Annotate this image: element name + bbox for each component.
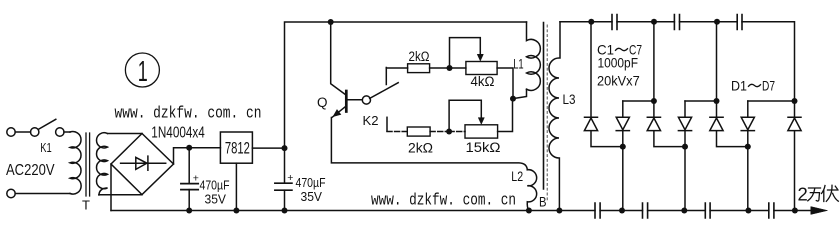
inductor L1 — [527, 22, 541, 90]
wire secondary top to bridge — [108, 133, 143, 135]
wire 12V vertical riser — [285, 22, 331, 183]
wire down to capacitor 470uF — [188, 148, 190, 184]
diode D2 — [616, 101, 629, 211]
svg-text:15kΩ: 15kΩ — [466, 140, 501, 155]
capacitor C top3 — [737, 15, 742, 30]
wire AC bottom to transformer primary — [15, 193, 70, 195]
capacitor 470uF/35V (first) — [181, 184, 198, 190]
wire cap to ground rail — [188, 190, 190, 211]
svg-text:L2: L2 — [511, 169, 523, 184]
svg-text:D7: D7 — [762, 78, 775, 94]
svg-text:Q: Q — [317, 95, 328, 110]
transformer B core dashed — [546, 25, 548, 200]
svg-text:AC220V: AC220V — [6, 162, 55, 179]
transistor Q base lead — [346, 99, 362, 101]
capacitor 470uF/35V (second) — [275, 183, 292, 190]
arrow wiper 4k — [477, 55, 483, 62]
svg-text:470µF: 470µF — [200, 178, 230, 193]
junction dot 12V node — [282, 145, 288, 151]
wire 7812 output — [252, 147, 284, 149]
svg-text:35V: 35V — [301, 189, 323, 204]
resistor 2k lower box — [407, 127, 430, 136]
wire bridge DC+ up to rail — [174, 148, 221, 164]
svg-text:2kΩ: 2kΩ — [408, 141, 433, 156]
bridge rectifier 1N4004x4 diamond — [111, 134, 174, 195]
junction dot lower branch — [446, 129, 452, 135]
wire 15k right up to join node — [498, 99, 513, 132]
dashed wire lower contact to 2k — [387, 131, 407, 133]
svg-text:T: T — [82, 198, 90, 213]
svg-text:L3: L3 — [563, 92, 576, 107]
svg-text:K1: K1 — [40, 141, 52, 155]
potentiometer 15k box — [465, 125, 498, 138]
svg-text:1: 1 — [138, 56, 148, 88]
junction dot D5 top — [714, 98, 720, 104]
capacitor C bottom2 — [643, 203, 648, 218]
svg-text:B: B — [539, 194, 547, 210]
svg-text:+: + — [287, 172, 293, 184]
wire 4k right to join node — [497, 68, 513, 99]
output wire 20kV — [795, 210, 812, 212]
junction dot D6 bottom — [745, 144, 751, 150]
svg-text:7812: 7812 — [225, 139, 250, 158]
diode D1 — [584, 22, 622, 147]
ground rail bottom — [111, 210, 795, 212]
wire 2k to node — [430, 67, 466, 69]
svg-text:www. dzkfw. com. cn: www. dzkfw. com. cn — [115, 104, 262, 123]
svg-text:1N4004x4: 1N4004x4 — [151, 124, 205, 141]
circled number 1 — [125, 53, 159, 87]
output arrowhead — [811, 207, 828, 215]
junction dot collector rail — [328, 19, 334, 25]
capacitor C bottom1 — [595, 203, 600, 218]
diode D7 — [788, 101, 801, 211]
node AC input terminal bottom — [7, 189, 15, 197]
switch K2 upper contact — [385, 68, 387, 85]
junction dots bottom rail — [619, 208, 798, 214]
inductor L2 — [527, 170, 536, 211]
svg-text:K2: K2 — [363, 113, 379, 128]
inductor L3 secondary HV winding — [549, 22, 560, 211]
switch K1 left contact — [31, 128, 39, 136]
capacitor C top1 — [612, 15, 617, 30]
svg-text:35V: 35V — [205, 192, 227, 207]
svg-text:D1: D1 — [731, 78, 747, 94]
wire D2-D3 top link — [623, 100, 654, 102]
wire secondary bottom to bridge — [99, 194, 142, 196]
junction dot D4 bottom — [682, 144, 688, 150]
wire switch to transformer primary — [64, 131, 70, 133]
svg-text:1000pF: 1000pF — [598, 56, 639, 71]
junction dot D2 bottom — [620, 144, 626, 150]
svg-text:4kΩ: 4kΩ — [471, 74, 495, 89]
wire node to 15k — [449, 131, 465, 133]
svg-text:www. dzkfw. com. cn: www. dzkfw. com. cn — [371, 190, 516, 209]
junction dot cap2 ground — [282, 208, 288, 214]
svg-text:2kΩ: 2kΩ — [409, 49, 430, 64]
wire wiper loop lower — [449, 100, 481, 131]
arrow wiper 15k — [478, 118, 484, 125]
wire wiper loop upper — [450, 38, 481, 68]
wire 7812 ground pin — [235, 163, 237, 210]
wire D4-D5 top link — [685, 100, 717, 102]
junction dot D7 top — [792, 98, 798, 104]
wire cap2 to ground rail — [284, 190, 286, 210]
multiplier top rail — [560, 22, 795, 101]
wire upper contact to 2k resistor — [386, 67, 407, 69]
oscillator top rail — [331, 21, 527, 23]
label wan (10000) glyph — [808, 188, 821, 201]
regulator 7812 box — [220, 132, 252, 163]
svg-text:2: 2 — [798, 184, 808, 205]
junction dot cap1 ground — [186, 208, 192, 214]
junction dot upper branch — [447, 65, 453, 71]
svg-text:470µF: 470µF — [296, 175, 326, 190]
junction dot 7812 ground — [233, 208, 239, 214]
switch K2 pole circle — [362, 96, 370, 104]
junction dot D3 top — [651, 98, 657, 104]
svg-text:20kVx7: 20kVx7 — [597, 74, 640, 89]
potentiometer 4k box — [466, 62, 497, 75]
wire bridge DC- down to ground rail — [110, 164, 112, 211]
transistor Q emitter with arrow — [332, 107, 345, 117]
transformer T primary winding — [70, 132, 81, 195]
junction dot branches join — [510, 96, 516, 102]
transformer B core solid — [543, 23, 545, 190]
capacitor C top2 — [674, 15, 679, 30]
switch K2 arm — [370, 83, 399, 99]
wire collector — [331, 22, 345, 94]
svg-text:+: + — [193, 172, 199, 184]
junction dots top rail — [588, 19, 720, 25]
wire L1 bottom to join node — [513, 89, 527, 98]
diode D3 — [647, 22, 685, 147]
diode D5 — [710, 22, 748, 147]
diode D4 — [678, 101, 691, 211]
diode D6 — [741, 101, 754, 211]
junction dot L2 ground — [526, 208, 532, 214]
capacitor C bottom3 — [705, 203, 710, 218]
wire emitter down and right to L2 — [331, 118, 527, 170]
emitter arrowhead — [333, 110, 341, 117]
transformer T core — [86, 133, 90, 196]
node AC input terminal top — [7, 128, 15, 136]
svg-text:L1: L1 — [513, 56, 524, 71]
switch K1 arm — [38, 119, 56, 129]
dashed wire 2k lower to node — [430, 131, 449, 133]
transistor Q bar — [345, 91, 348, 112]
junction dot L3 ground — [556, 208, 562, 214]
junction dot at C1 top — [186, 145, 192, 151]
wire AC top to switch — [15, 131, 30, 133]
label fu (volt) glyph — [822, 185, 839, 201]
switch K1 right contact — [56, 128, 64, 136]
capacitor C bottom4 — [769, 203, 774, 218]
diode inside bridge — [121, 156, 166, 170]
lower contact tick of K2 — [386, 117, 388, 131]
transformer T secondary winding — [97, 133, 108, 195]
wire D6-D7 top link — [748, 100, 795, 102]
resistor 2k upper box — [408, 64, 430, 73]
